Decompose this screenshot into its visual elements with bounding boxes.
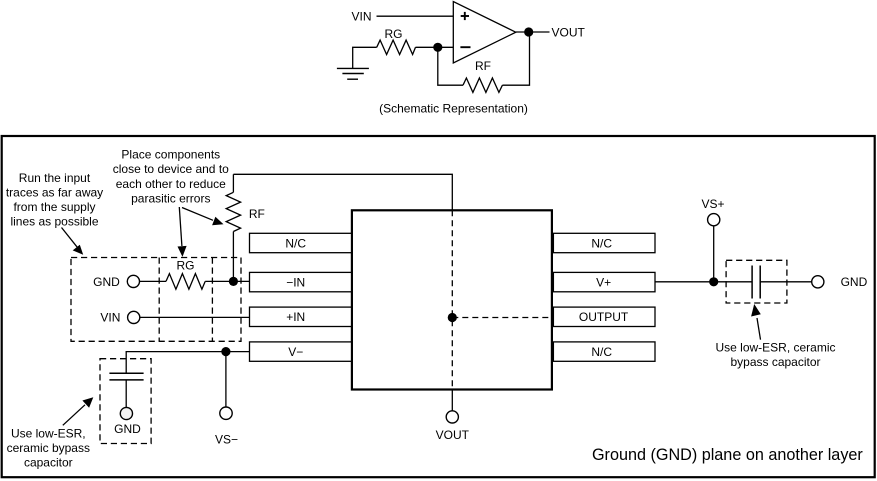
- pin box -IN: [250, 272, 352, 291]
- pin box N/C (left 1): [250, 233, 352, 252]
- wire IC output to VOUT pad: [451, 389, 453, 411]
- svg-text:(Schematic Representation): (Schematic Representation): [379, 102, 528, 116]
- dashed region around C2: [726, 260, 787, 303]
- svg-text:parasitic errors: parasitic errors: [131, 191, 210, 205]
- wire V+ pin to capacitor C2: [655, 281, 752, 283]
- svg-text:GND: GND: [93, 275, 120, 289]
- resistor RG (layout): [166, 274, 205, 290]
- terminal GND pad (input): [127, 275, 139, 287]
- wire RF top lead: [232, 174, 234, 192]
- junction dot internal node: [448, 313, 457, 322]
- wire VIN pad to +IN pin: [140, 316, 250, 318]
- svg-text:from the supply: from the supply: [13, 200, 95, 214]
- terminal GND pad (right): [812, 276, 824, 288]
- annotation: bypass capacitor note (left): [7, 426, 90, 469]
- pin box V-: [250, 342, 352, 361]
- svg-text:N/C: N/C: [285, 236, 306, 250]
- junction dot at output node: [524, 27, 533, 36]
- svg-text:−IN: −IN: [286, 276, 305, 290]
- resistor RG (schematic): [377, 40, 416, 54]
- svg-text:RF: RF: [475, 59, 491, 73]
- svg-text:GND: GND: [114, 422, 141, 436]
- arrow from input-traces note to dashed region: [62, 228, 84, 255]
- dashed internal horizontal trace to OUTPUT: [452, 317, 552, 319]
- svg-text:Use low-ESR,: Use low-ESR,: [11, 426, 86, 440]
- terminal VS+ pad: [708, 214, 720, 226]
- svg-text:ceramic bypass: ceramic bypass: [7, 441, 90, 455]
- wire V- trace to bypass capacitor: [126, 352, 249, 374]
- svg-text:bypass capacitor: bypass capacitor: [730, 355, 820, 369]
- wire top feedback trace from RF to output column: [233, 174, 452, 210]
- svg-text:RF: RF: [249, 207, 265, 221]
- wire C2 to GND pad (right): [760, 281, 812, 283]
- svg-text:VOUT: VOUT: [436, 428, 470, 442]
- svg-text:RG: RG: [177, 258, 195, 272]
- svg-text:OUTPUT: OUTPUT: [579, 310, 629, 324]
- pin box N/C (right 2): [553, 342, 655, 361]
- svg-text:V−: V−: [288, 345, 303, 359]
- wire inverting input: [416, 46, 454, 48]
- annotation: bypass capacitor note (right): [715, 341, 835, 370]
- junction dot V+ node: [709, 277, 718, 286]
- wire GND pad to RG: [140, 280, 167, 282]
- op-amp U1: [453, 2, 516, 64]
- junction dot inverting node (layout): [229, 277, 238, 286]
- arrow from place-components note to RF: [182, 208, 224, 226]
- capacitor C1 (V- bypass): [109, 373, 143, 380]
- svg-text:Ground (GND) plane on another: Ground (GND) plane on another layer: [592, 446, 863, 464]
- wire feedback from inverting node down: [438, 47, 463, 85]
- svg-text:VIN: VIN: [351, 10, 371, 24]
- wire RG to -IN pin: [205, 280, 249, 282]
- arrow from place-components note to RG region: [178, 207, 187, 257]
- board outline border: [2, 136, 875, 477]
- annotation: run input traces note: [6, 171, 103, 229]
- wire RF bottom lead to inverting node: [232, 232, 234, 282]
- svg-text:RG: RG: [385, 27, 403, 41]
- pin box +IN: [250, 307, 352, 326]
- wire VIN to op-amp noninverting input: [377, 15, 454, 17]
- svg-text:VS+: VS+: [701, 197, 724, 211]
- pin box OUTPUT: [553, 307, 655, 326]
- svg-text:close to device and to: close to device and to: [113, 162, 229, 176]
- wire VS+ pad to V+ trace: [713, 226, 715, 282]
- wire op-amp output: [516, 31, 550, 33]
- dashed divider left of RG: [158, 258, 160, 342]
- svg-text:V+: V+: [596, 276, 611, 290]
- resistor RF (schematic): [463, 78, 502, 92]
- dashed divider right of RG: [211, 258, 213, 342]
- svg-text:N/C: N/C: [591, 236, 612, 250]
- svg-text:Run the input: Run the input: [19, 171, 91, 185]
- resistor RF (layout): [226, 192, 240, 231]
- svg-text:capacitor: capacitor: [24, 456, 73, 470]
- annotation: place components note: [113, 148, 229, 206]
- dashed region around input traces: [71, 258, 241, 342]
- dashed region around C1: [100, 359, 151, 444]
- pin box V+: [553, 272, 655, 291]
- svg-text:VS−: VS−: [215, 433, 238, 447]
- IC U1 body: [352, 210, 552, 389]
- terminal GND pad (bottom): [120, 407, 132, 419]
- wire feedback to output node: [502, 32, 529, 85]
- svg-text:N/C: N/C: [591, 345, 612, 359]
- svg-text:each other to reduce: each other to reduce: [116, 177, 226, 191]
- junction dot on V- trace: [221, 347, 230, 356]
- arrow from left bypass note to C1 region: [63, 397, 94, 425]
- junction dot at inverting input node: [433, 43, 442, 52]
- ground: [337, 68, 369, 79]
- svg-text:traces as far away: traces as far away: [6, 185, 103, 199]
- svg-text:VOUT: VOUT: [552, 26, 586, 40]
- terminal VOUT pad: [446, 411, 458, 423]
- capacitor C2 (V+ bypass): [752, 266, 760, 299]
- svg-text:lines as possible: lines as possible: [10, 215, 98, 229]
- terminal VS- pad: [220, 407, 232, 419]
- arrow from right bypass note to C2 region: [751, 304, 761, 340]
- svg-text:GND: GND: [841, 275, 868, 289]
- wire C1 to GND pad: [125, 380, 127, 408]
- dashed internal vertical trace: [451, 210, 453, 389]
- svg-text:Use low-ESR, ceramic: Use low-ESR, ceramic: [715, 341, 835, 355]
- svg-text:+IN: +IN: [286, 310, 305, 324]
- wire junction to VS- pad: [225, 352, 227, 407]
- wire RG to ground: [353, 47, 377, 68]
- svg-text:VIN: VIN: [100, 310, 120, 324]
- terminal VIN pad: [128, 311, 140, 323]
- svg-text:Place components: Place components: [121, 148, 220, 162]
- pin box N/C (right 1): [553, 233, 655, 252]
